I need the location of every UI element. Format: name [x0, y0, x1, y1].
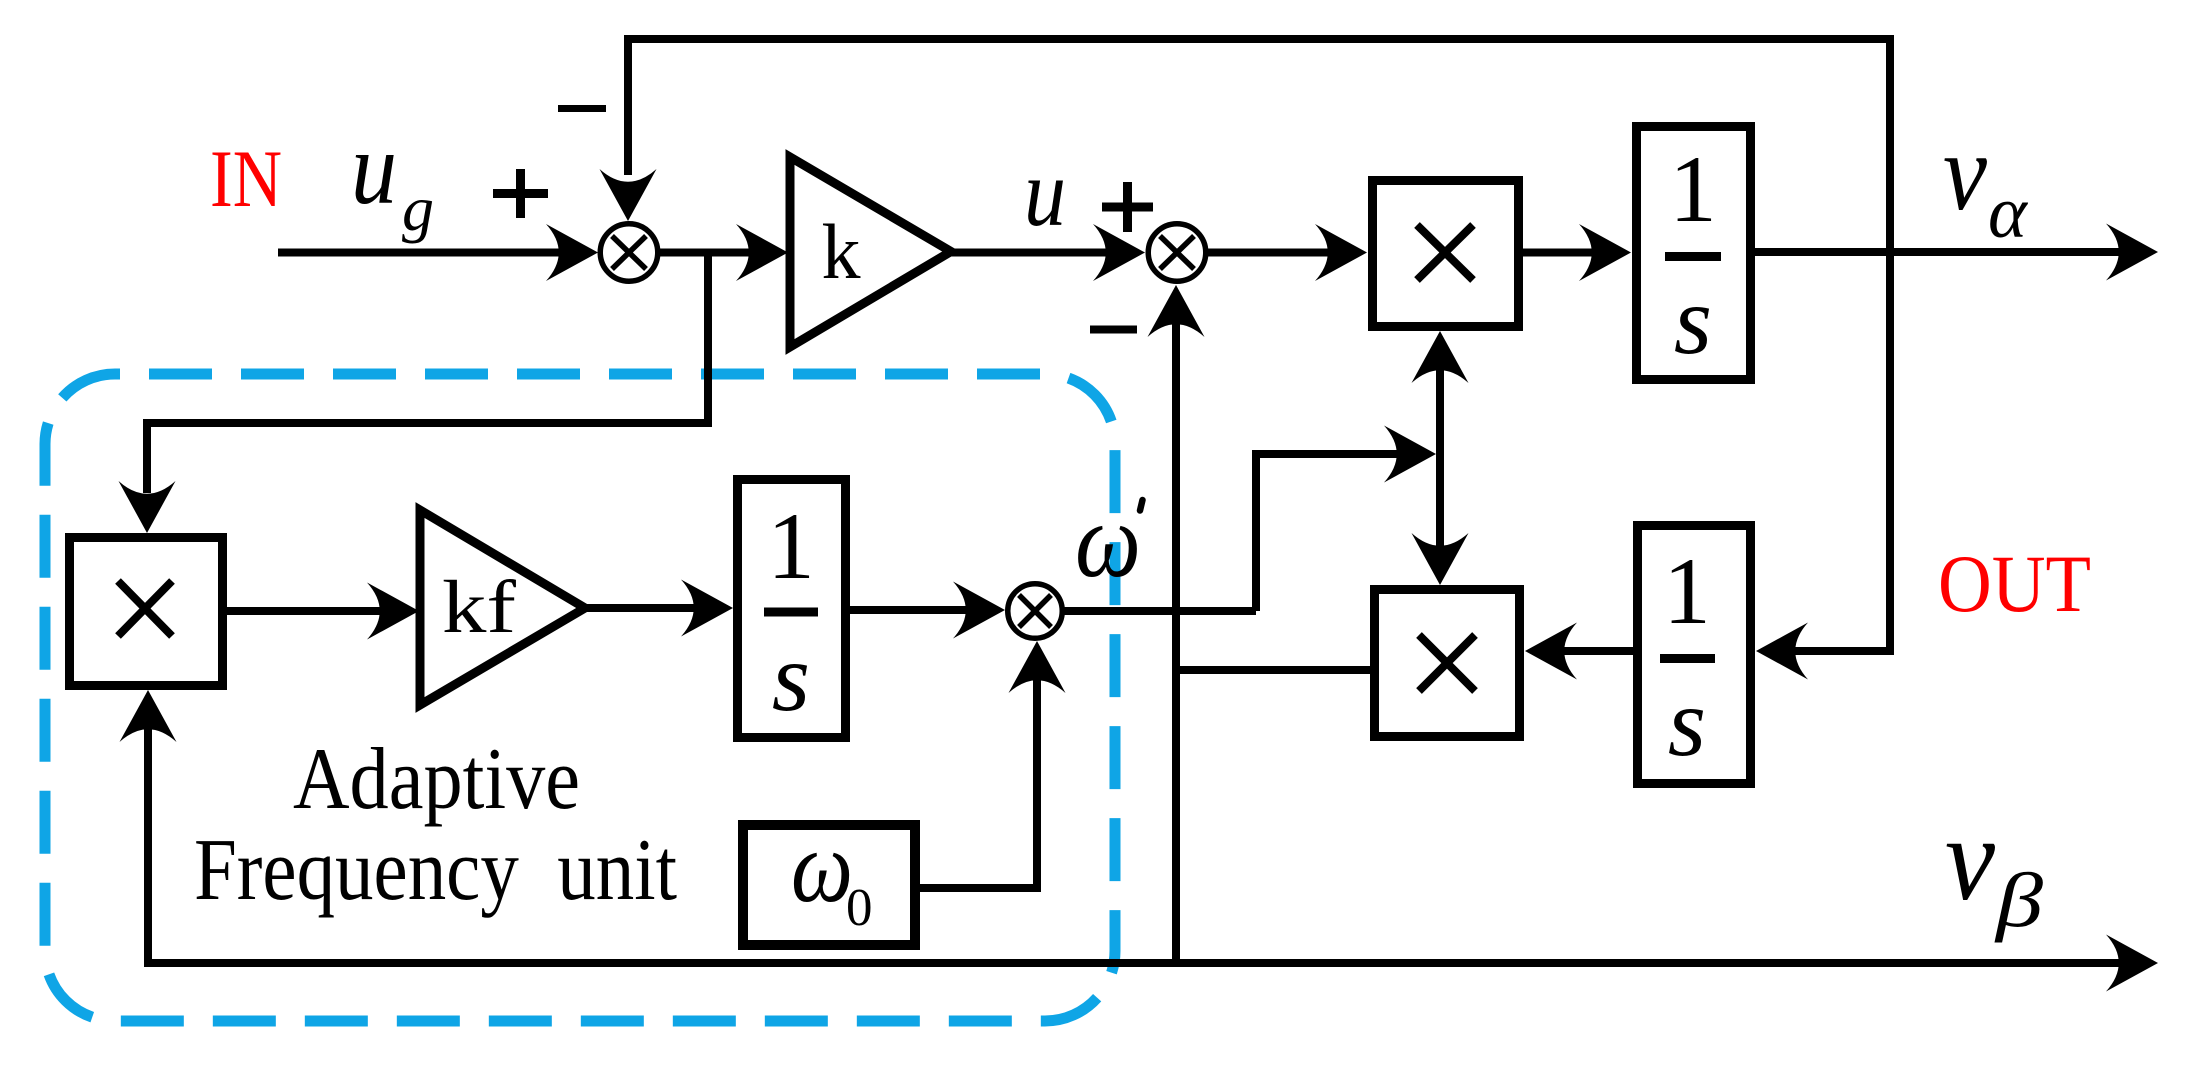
wire: gain k to sum S2 — [951, 249, 1132, 257]
svg-text:IN: IN — [210, 133, 282, 224]
label v_alpha — [1943, 111, 2029, 254]
gain kf triangle — [420, 510, 585, 705]
integrator I1 (1/s) — [1637, 127, 1751, 380]
label u_g — [351, 111, 434, 244]
arrow: v-alpha output — [2106, 224, 2158, 281]
label Adaptive Frequency unit — [194, 731, 677, 919]
svg-text:v: v — [1943, 111, 1987, 233]
integrator I2 (1/s) — [1638, 526, 1751, 784]
svg-text:1: 1 — [1669, 136, 1717, 242]
label plus at S1 — [493, 169, 548, 218]
wire: omega0 box to S3 bottom input — [920, 655, 1037, 888]
label v_beta — [1945, 792, 2044, 943]
svg-text:0: 0 — [846, 879, 873, 937]
wire: I1 output to v-alpha — [1755, 248, 2148, 256]
svg-text:α: α — [1988, 172, 2029, 254]
label plus at S2 — [1102, 182, 1153, 232]
wire: S3 output to junction — [1063, 607, 1256, 615]
arrow: into I3 — [681, 580, 733, 637]
arrow: right into M1/M2 link — [1384, 426, 1436, 483]
wire: M1 to integrator I1 — [1523, 249, 1618, 257]
svg-text:v: v — [1945, 792, 1996, 925]
wire: top feedback from v-alpha line to S1 minus input — [628, 39, 1890, 651]
arrow: down into S1 top (minus feedback) — [600, 169, 657, 221]
svg-text:Frequency unit: Frequency unit — [194, 822, 677, 919]
svg-text:g: g — [402, 173, 434, 244]
arrow: into M1 — [1315, 224, 1367, 281]
label omega-prime — [1075, 482, 1143, 600]
multiplier M3 — [70, 538, 223, 686]
arrow: into S2 — [1093, 224, 1145, 281]
dashed boundary: Adaptive Frequency unit — [45, 374, 1115, 1021]
wire: kf to integrator I3 — [585, 604, 721, 612]
svg-text:1: 1 — [1663, 538, 1711, 644]
svg-text:ω: ω — [791, 810, 853, 924]
wire: branch from S1 output down and left to mult M3 — [147, 253, 708, 494]
arrow: into kf — [367, 583, 419, 640]
svg-text:k: k — [822, 208, 861, 295]
svg-text:β: β — [1994, 857, 2044, 943]
integrator I3 (1/s) — [738, 480, 846, 738]
arrow: into gain k — [736, 224, 788, 281]
gain k triangle — [790, 157, 951, 347]
svg-text:s: s — [1668, 669, 1706, 777]
arrow: down into M2 top — [1412, 533, 1469, 585]
svg-text:OUT: OUT — [1938, 538, 2091, 629]
wire: input u_g to sum S1 — [278, 249, 560, 257]
arrow: down into M3 top — [119, 481, 176, 533]
arrow: left into I2 from feedback — [1756, 623, 1808, 680]
arrow: v-beta output — [2106, 935, 2158, 992]
summing junction S2 — [1148, 224, 1206, 282]
wire: S1 to gain k — [659, 249, 750, 257]
wire: double-arrow link between M1 and M2 — [1436, 341, 1444, 575]
arrow: into S1 from input — [546, 224, 598, 281]
arrow: up into M3 bottom — [120, 690, 177, 742]
arrow: left into M2 from I2 — [1525, 623, 1577, 680]
wire: v-beta output line with corner up into M3 bottom input — [148, 704, 2148, 963]
svg-text:Adaptive: Adaptive — [293, 731, 580, 828]
svg-text:s: s — [1674, 267, 1712, 375]
svg-text:kf: kf — [442, 566, 516, 649]
arrow: into S3 — [953, 582, 1005, 639]
multiplier M2 — [1375, 590, 1520, 737]
block omega0 — [743, 810, 915, 945]
svg-text:s: s — [772, 624, 810, 732]
svg-text:1: 1 — [767, 493, 815, 599]
svg-text:u: u — [351, 111, 397, 226]
wire: M3 to gain kf — [227, 607, 407, 615]
wire: omega-prime vertical to M2 left input — [1176, 666, 1370, 674]
arrow: up into S2 bottom — [1148, 285, 1205, 337]
multiplier M1 — [1373, 181, 1519, 327]
label minus at S2 — [1090, 326, 1137, 334]
summing junction S1 — [600, 224, 658, 282]
arrow: up into S3 bottom from omega0 — [1009, 641, 1066, 693]
label minus at S1 — [558, 105, 606, 112]
svg-text:u: u — [1024, 139, 1066, 246]
wire: S2 to multiplier M1 — [1208, 249, 1354, 257]
arrow: into I1 — [1579, 224, 1631, 281]
arrowheads — [119, 169, 2159, 992]
wire: omega-prime vertical from S2 minus input down to v-beta line — [1172, 299, 1180, 963]
wire: I2 output to M2 — [1538, 647, 1635, 655]
summing junction S3 — [1008, 584, 1063, 639]
arrow: up into M1 bottom — [1412, 331, 1469, 383]
wire: omega-prime feed to M1/M2 link — [1256, 454, 1424, 611]
svg-text:ω: ω — [1075, 482, 1141, 600]
wire: I3 to sum S3 — [850, 606, 991, 614]
